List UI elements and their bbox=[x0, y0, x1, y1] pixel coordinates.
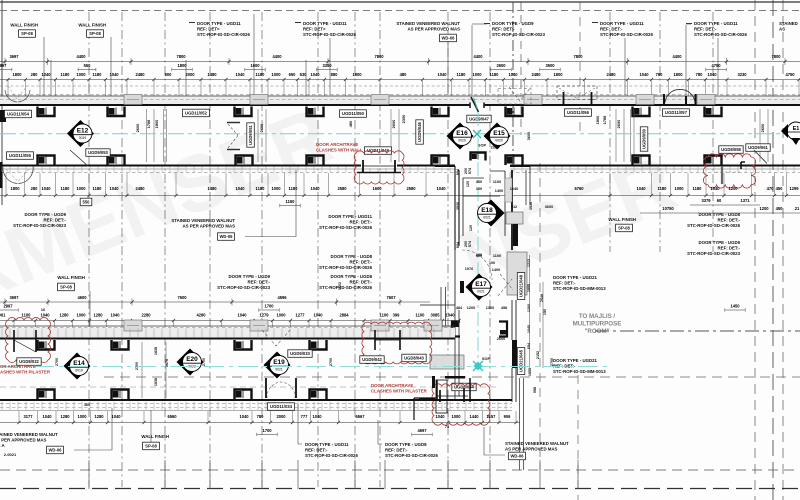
svg-text:650: 650 bbox=[289, 72, 297, 77]
door jamb above wall B x46 bbox=[38, 156, 55, 166]
svg-text:1100: 1100 bbox=[22, 313, 32, 318]
wall pair lower right bbox=[520, 378, 524, 470]
svg-text:1800: 1800 bbox=[12, 72, 22, 77]
corridor lower walls bbox=[436, 300, 516, 413]
wire dim vert 3676 bbox=[165, 342, 167, 398]
svg-text:AS PER APPROVED MAS: AS PER APPROVED MAS bbox=[408, 27, 461, 32]
svg-text:E20: E20 bbox=[186, 356, 198, 363]
svg-text:1180: 1180 bbox=[693, 186, 703, 191]
door jamb below wall C x120 bbox=[112, 340, 129, 350]
marker E18 bbox=[478, 200, 505, 227]
label WD-06 bottom left bbox=[47, 446, 64, 454]
svg-text:780: 780 bbox=[696, 72, 704, 77]
svg-text:1040: 1040 bbox=[508, 72, 518, 77]
wall B door gap bbox=[361, 164, 397, 168]
svg-text:3177: 3177 bbox=[23, 414, 33, 419]
label WD-06 box mid bbox=[218, 233, 235, 241]
label stained right clip bbox=[779, 21, 798, 32]
label UGD11/052 bbox=[183, 109, 210, 117]
door panel wall C x124 bbox=[124, 320, 142, 331]
svg-text:DOOR TYPE - UGD11: DOOR TYPE - UGD11 bbox=[305, 442, 349, 447]
svg-text:1000: 1000 bbox=[472, 72, 482, 77]
svg-text:2600: 2600 bbox=[135, 124, 140, 133]
wire left edge bbox=[1, 0, 3, 205]
svg-text:DOOR TYPE - UGD9: DOOR TYPE - UGD9 bbox=[698, 240, 740, 245]
door jamb below wall A x46 bbox=[38, 107, 55, 117]
label door type UGD9 mid-left bbox=[13, 212, 66, 228]
svg-text:3600: 3600 bbox=[545, 205, 553, 209]
label wall finish right bbox=[608, 217, 636, 222]
svg-text:3697: 3697 bbox=[9, 54, 19, 59]
svg-text:1000: 1000 bbox=[674, 186, 684, 191]
door panel wall C x371 bbox=[371, 320, 389, 331]
svg-text:1800: 1800 bbox=[595, 116, 600, 125]
svg-text:STC-ROP-ID-SD-CIR-0026: STC-ROP-ID-SD-CIR-0026 bbox=[303, 32, 356, 37]
svg-text:1040: 1040 bbox=[41, 72, 51, 77]
svg-text:4400: 4400 bbox=[76, 54, 86, 59]
corner post left bbox=[0, 110, 6, 122]
svg-text:UGD21/045: UGD21/045 bbox=[519, 349, 524, 372]
revision cloud UGD8/032 bbox=[6, 318, 51, 363]
wire leader bbox=[253, 14, 255, 95]
door jamb below wall A x713 bbox=[705, 107, 722, 117]
svg-text:1000: 1000 bbox=[451, 414, 461, 419]
svg-text:1000: 1000 bbox=[271, 186, 281, 191]
svg-text:1040: 1040 bbox=[110, 313, 120, 318]
label UGD9/047 bbox=[467, 115, 491, 123]
door jamb above wall D x120 bbox=[112, 390, 129, 400]
svg-text:WD-06: WD-06 bbox=[219, 234, 233, 239]
svg-text:300: 300 bbox=[476, 180, 482, 184]
svg-text:E12: E12 bbox=[77, 127, 89, 134]
svg-text:2480: 2480 bbox=[135, 72, 145, 77]
wire grid line bbox=[121, 12, 123, 487]
label WD-06 bottom right bbox=[509, 452, 526, 460]
wire dim chain a bbox=[529, 255, 531, 368]
door jamb vertical left bbox=[452, 322, 460, 337]
door posts right bbox=[664, 94, 696, 106]
svg-text:7600: 7600 bbox=[177, 295, 187, 300]
svg-text:0021: 0021 bbox=[483, 216, 491, 220]
wire wall D dashed 1 bbox=[0, 403, 512, 405]
door dashed V below wall B left bbox=[6, 169, 29, 181]
svg-text:STC-ROP-ID-SD-CIR-0026: STC-ROP-ID-SD-CIR-0026 bbox=[305, 453, 358, 458]
label door UGD21 a bbox=[553, 275, 606, 291]
svg-text:4280: 4280 bbox=[196, 313, 206, 318]
svg-text:1280: 1280 bbox=[93, 313, 103, 318]
label wall finish mid bbox=[57, 275, 85, 280]
wall B band ticks bbox=[2, 167, 794, 173]
svg-text:1371: 1371 bbox=[740, 198, 750, 203]
svg-text:STAINED VENEERED WALNUT: STAINED VENEERED WALNUT bbox=[0, 432, 58, 437]
svg-text:1040: 1040 bbox=[510, 187, 518, 191]
wire grid line bbox=[354, 12, 356, 487]
svg-text:UGD9/046: UGD9/046 bbox=[417, 121, 422, 141]
svg-text:470: 470 bbox=[767, 186, 775, 191]
revision cloud UGD11/049 bbox=[354, 151, 404, 184]
wire dim vert 2700 bbox=[141, 342, 143, 398]
svg-text:STC-ROP-ID-SD-CIR-0026: STC-ROP-ID-SD-CIR-0026 bbox=[687, 223, 740, 228]
svg-text:912: 912 bbox=[511, 205, 517, 209]
svg-text:ASHES WITH PILASTER: ASHES WITH PILASTER bbox=[0, 370, 51, 375]
wire wall A dashed 2 bbox=[0, 99, 800, 101]
svg-text:STC-ROP-ID-SD-CIR-0026: STC-ROP-ID-SD-CIR-0026 bbox=[319, 285, 372, 290]
label UGD9/059 rotated bbox=[640, 127, 648, 151]
svg-text:REF: DET:-: REF: DET:- bbox=[350, 260, 373, 265]
svg-text:E17: E17 bbox=[475, 281, 487, 288]
svg-text:1180: 1180 bbox=[490, 72, 500, 77]
svg-text:1040: 1040 bbox=[40, 313, 50, 318]
corridor left wall pair bbox=[441, 287, 446, 326]
label stained walnut mid bbox=[171, 218, 235, 229]
svg-text:1040: 1040 bbox=[436, 186, 446, 191]
door swing arcs mid bbox=[509, 87, 531, 101]
svg-text:1180: 1180 bbox=[289, 186, 299, 191]
svg-text:1040: 1040 bbox=[639, 72, 649, 77]
svg-text:6560: 6560 bbox=[167, 414, 177, 419]
svg-text:1040: 1040 bbox=[235, 72, 245, 77]
watermark bbox=[0, 90, 687, 321]
wire dashed right b bbox=[104, 376, 800, 378]
svg-text:1976: 1976 bbox=[465, 267, 473, 271]
wire leader bbox=[185, 60, 187, 96]
wire wall D face thick bbox=[0, 399, 512, 401]
svg-text:REF: DET:-: REF: DET:- bbox=[305, 448, 328, 453]
svg-text:1040: 1040 bbox=[41, 186, 51, 191]
wire bottom stub bbox=[577, 460, 579, 489]
wire grid line short bbox=[609, 12, 611, 252]
svg-text:906: 906 bbox=[504, 414, 512, 419]
corridor vertical walls bbox=[420, 166, 530, 305]
door panel x636 bbox=[636, 95, 654, 105]
corridor grey wall right bbox=[505, 178, 512, 202]
svg-text:REF: DET:-: REF: DET:- bbox=[44, 218, 67, 223]
svg-text:STC-ROP-ID-SD-CIR-0023: STC-ROP-ID-SD-CIR-0023 bbox=[687, 251, 740, 256]
marker E14 bbox=[64, 353, 91, 380]
svg-text:DOOR ARCHITRAVE: DOOR ARCHITRAVE bbox=[316, 142, 358, 147]
svg-text:REF: DET:-: REF: DET:- bbox=[553, 281, 576, 286]
marker E20 bbox=[177, 349, 204, 376]
door diagonal E12 bbox=[70, 150, 88, 166]
svg-text:SP-08: SP-08 bbox=[89, 31, 101, 36]
svg-text:"ROOM": "ROOM" bbox=[584, 328, 609, 335]
svg-text:E14: E14 bbox=[73, 360, 85, 367]
wall C grey band fill bbox=[0, 328, 455, 338]
svg-text:UGD9/053: UGD9/053 bbox=[88, 150, 108, 155]
wire grid line bbox=[164, 12, 166, 487]
svg-text:4750: 4750 bbox=[711, 63, 721, 68]
svg-text:2580: 2580 bbox=[337, 186, 347, 191]
svg-text:SOP: SOP bbox=[482, 357, 490, 361]
svg-text:777: 777 bbox=[301, 414, 309, 419]
svg-text:2600: 2600 bbox=[259, 124, 264, 133]
svg-text:DOOR TYPE - UGD21: DOOR TYPE - UGD21 bbox=[553, 275, 598, 280]
svg-text:DOOR TYPE - UGD8: DOOR TYPE - UGD8 bbox=[330, 254, 372, 259]
svg-text:UGD8/043: UGD8/043 bbox=[404, 356, 424, 361]
svg-text:4750: 4750 bbox=[785, 72, 795, 77]
wire wall B thin bbox=[0, 168, 455, 170]
label door type UGD9 right bbox=[687, 240, 740, 256]
corridor inner outline bbox=[463, 171, 505, 236]
svg-text:1200: 1200 bbox=[467, 306, 475, 310]
wire wall A face thick bbox=[0, 104, 800, 106]
label door UGD21 b bbox=[553, 358, 606, 374]
svg-text:1040: 1040 bbox=[313, 313, 323, 318]
door posts bottom bbox=[266, 378, 296, 398]
svg-text:REF: DET:-: REF: DET:- bbox=[385, 448, 408, 453]
svg-text:498: 498 bbox=[501, 306, 507, 310]
svg-text:484: 484 bbox=[456, 306, 463, 310]
svg-text:DOOR TYPE - UGD9: DOOR TYPE - UGD9 bbox=[228, 274, 270, 279]
label UGD11/054 bbox=[5, 110, 32, 118]
wire leader wd06 bottom right bbox=[484, 427, 505, 455]
label door UGD11 bottom bbox=[305, 442, 358, 458]
svg-text:AS PER APPROVED MAS: AS PER APPROVED MAS bbox=[0, 438, 47, 443]
svg-text:0020: 0020 bbox=[495, 139, 503, 143]
svg-text:550: 550 bbox=[83, 200, 91, 205]
label to majlis bbox=[573, 313, 622, 335]
svg-text:2350: 2350 bbox=[401, 115, 406, 124]
svg-text:280: 280 bbox=[31, 186, 39, 191]
door jamb above wall D x46 bbox=[38, 390, 55, 400]
svg-text:1040: 1040 bbox=[312, 414, 322, 419]
door jamb below wall A x514 bbox=[506, 107, 523, 117]
wire leader bbox=[50, 60, 52, 96]
door swing arcs left bbox=[5, 90, 30, 102]
label UGD11/034 bbox=[268, 403, 295, 411]
svg-text:1000: 1000 bbox=[76, 72, 86, 77]
door frame in cloud right bbox=[716, 162, 745, 184]
svg-text:21: 21 bbox=[795, 206, 800, 211]
svg-text:STC-ROP-ID-SD-CIR-0026: STC-ROP-ID-SD-CIR-0026 bbox=[694, 32, 747, 37]
svg-text:480: 480 bbox=[400, 72, 408, 77]
wire bottom dashed 2 bbox=[0, 488, 800, 490]
door jamb above wall D x318 bbox=[310, 390, 327, 400]
svg-text:1100: 1100 bbox=[380, 313, 390, 318]
svg-text:REF: DET:-: REF: DET:- bbox=[718, 218, 741, 223]
svg-text:STC-ROP-ID-SD-CIR-0026: STC-ROP-ID-SD-CIR-0026 bbox=[197, 32, 250, 37]
door diagonal right bbox=[754, 150, 767, 164]
label UGD8/044 bbox=[452, 383, 476, 391]
door jamb below wall C x46 bbox=[38, 340, 55, 350]
svg-text:2480: 2480 bbox=[135, 186, 145, 191]
svg-text:4600: 4600 bbox=[77, 295, 87, 300]
svg-text:7800: 7800 bbox=[176, 54, 186, 59]
svg-text:7800: 7800 bbox=[374, 54, 384, 59]
wire grid line bbox=[317, 12, 319, 487]
label UGD11/057 bbox=[663, 109, 690, 117]
wire bottom stub bbox=[447, 460, 449, 489]
dim row top level B bbox=[0, 63, 726, 71]
wire wall B thick left bbox=[0, 165, 455, 167]
door dashed UGD11/056 bbox=[557, 86, 597, 106]
svg-text:UGD11/050: UGD11/050 bbox=[342, 111, 365, 116]
svg-text:1440: 1440 bbox=[469, 414, 479, 419]
svg-text:STC-ROP-ID-SD-CIR-0026: STC-ROP-ID-SD-CIR-0026 bbox=[600, 32, 653, 37]
svg-text:1100: 1100 bbox=[416, 313, 426, 318]
dim mid level B bbox=[0, 304, 745, 312]
wire wall D bottom thin bbox=[0, 410, 512, 412]
svg-text:MULTIPURPOSE: MULTIPURPOSE bbox=[573, 321, 622, 328]
door double arcs below wall B left bbox=[3, 166, 33, 184]
wire leader wd06 mid bbox=[245, 170, 296, 237]
label SP-08 bottom bbox=[143, 442, 160, 450]
wire grid axis bbox=[512, 2, 514, 165]
svg-text:100: 100 bbox=[476, 187, 482, 191]
svg-text:1040: 1040 bbox=[235, 186, 245, 191]
svg-text:1600: 1600 bbox=[250, 63, 260, 68]
svg-text:2000: 2000 bbox=[276, 414, 286, 419]
svg-text:REF: DET:-: REF: DET:- bbox=[248, 280, 271, 285]
svg-text:0019: 0019 bbox=[79, 136, 87, 140]
svg-text:1855: 1855 bbox=[527, 284, 531, 292]
svg-text:CLASHES WITH WALL: CLASHES WITH WALL bbox=[316, 148, 363, 153]
svg-text:DOOR TYPE - UGD8: DOOR TYPE - UGD8 bbox=[330, 274, 372, 279]
svg-text:DOOR TYPE - UGD9: DOOR TYPE - UGD9 bbox=[24, 212, 66, 217]
black corridor bars bbox=[460, 224, 518, 368]
wire cyan vertical bbox=[477, 112, 479, 366]
door swing corridor bbox=[462, 250, 492, 280]
svg-text:UGD21/048: UGD21/048 bbox=[519, 274, 524, 297]
wire grid line short bbox=[712, 12, 714, 252]
svg-text:WALL FINISH: WALL FINISH bbox=[141, 434, 169, 439]
svg-text:WD-06: WD-06 bbox=[510, 454, 524, 459]
door panel x124 bbox=[124, 95, 142, 105]
svg-text:DOOR TYPE - UGD11: DOOR TYPE - UGD11 bbox=[600, 21, 644, 26]
svg-text:1100: 1100 bbox=[493, 254, 501, 258]
svg-text:1040: 1040 bbox=[237, 313, 247, 318]
svg-text:DOOR ARCHITRAVE: DOOR ARCHITRAVE bbox=[371, 383, 413, 388]
svg-text:60: 60 bbox=[717, 198, 722, 203]
svg-text:1000: 1000 bbox=[271, 72, 281, 77]
svg-text:1600: 1600 bbox=[372, 186, 382, 191]
svg-text:1800: 1800 bbox=[352, 72, 362, 77]
svg-text:1480: 1480 bbox=[207, 72, 217, 77]
svg-text:STAINED VENEERED WALNUT: STAINED VENEERED WALNUT bbox=[505, 441, 569, 446]
svg-text:1855: 1855 bbox=[528, 368, 532, 376]
door leaf top center bbox=[470, 97, 484, 112]
label UGD9/051 rotated bbox=[247, 123, 255, 147]
wire wall B dashed bbox=[0, 172, 455, 174]
cyan X junction bbox=[473, 361, 483, 371]
door frame cloud c bbox=[375, 330, 400, 350]
svg-text:4596: 4596 bbox=[277, 295, 287, 300]
svg-text:0019: 0019 bbox=[75, 369, 83, 373]
door jamb above wall B x514 bbox=[506, 156, 523, 166]
door jamb below wall C x243 bbox=[235, 340, 252, 350]
svg-text:STC-ROP-ID-SD-CIR-0023: STC-ROP-ID-SD-CIR-0023 bbox=[13, 223, 66, 228]
svg-text:STAINED VENEERED WALNUT: STAINED VENEERED WALNUT bbox=[171, 218, 235, 223]
label red clash pilaster b bbox=[371, 383, 428, 394]
label 550 box bbox=[80, 198, 92, 206]
svg-text:3536: 3536 bbox=[529, 202, 533, 210]
wire wall B thick right bbox=[510, 165, 800, 167]
svg-text:OR ARCHITRAVE: OR ARCHITRAVE bbox=[0, 364, 36, 369]
door jamb below wall A x116 bbox=[108, 107, 125, 117]
cyan X junction upper bbox=[473, 130, 481, 138]
svg-text:1480: 1480 bbox=[207, 186, 217, 191]
wire bottom stub bbox=[164, 460, 166, 489]
door jamb below wall A x641 bbox=[633, 107, 650, 117]
svg-text:6760: 6760 bbox=[574, 186, 584, 191]
marker E right edge bbox=[781, 122, 800, 145]
label UGD9/053 bbox=[86, 149, 110, 157]
svg-text:SOP: SOP bbox=[478, 143, 487, 148]
wire grid line bbox=[261, 12, 263, 487]
svg-text:1040: 1040 bbox=[111, 414, 121, 419]
label UGD8/032 bbox=[17, 358, 41, 366]
door jamb below wall A x243 bbox=[235, 107, 252, 117]
door jamb vertical right bbox=[499, 322, 507, 337]
svg-text:2700: 2700 bbox=[55, 358, 59, 366]
svg-text:1040: 1040 bbox=[636, 186, 646, 191]
wire dim chains between walls bbox=[146, 109, 148, 162]
door double arc bottom bbox=[267, 382, 295, 398]
label stained walnut bottom left bbox=[0, 432, 58, 443]
svg-text:2700: 2700 bbox=[329, 358, 333, 366]
svg-text:1040: 1040 bbox=[310, 72, 320, 77]
svg-text:1838: 1838 bbox=[154, 347, 158, 355]
door bars bottom bbox=[419, 376, 465, 401]
svg-text:0020: 0020 bbox=[458, 139, 466, 143]
wire leader door bottom bbox=[298, 404, 302, 444]
door panel x250 bbox=[250, 95, 268, 105]
svg-text:10750: 10750 bbox=[662, 206, 674, 211]
svg-text:780: 780 bbox=[656, 72, 664, 77]
wire bottom stub bbox=[384, 460, 386, 489]
door frame cloud b bbox=[14, 330, 36, 352]
svg-text:120: 120 bbox=[469, 225, 473, 231]
wire bottom stub bbox=[88, 460, 90, 489]
svg-text:574: 574 bbox=[468, 167, 472, 174]
svg-text:3602: 3602 bbox=[338, 282, 342, 290]
svg-text:1040: 1040 bbox=[707, 72, 717, 77]
wire right line bbox=[754, 0, 756, 500]
revision cloud UGD8/042 bbox=[362, 322, 432, 364]
svg-text:STC-ROP-ID-SD-CIR-0023: STC-ROP-ID-SD-CIR-0023 bbox=[217, 285, 270, 290]
corridor grey boxes bbox=[424, 212, 527, 369]
svg-text:16: 16 bbox=[41, 308, 45, 312]
svg-text:SP-08: SP-08 bbox=[618, 226, 630, 231]
svg-text:1788: 1788 bbox=[602, 115, 607, 124]
door jamb above wall D x243 bbox=[235, 390, 252, 400]
dim row bottom bbox=[0, 411, 520, 424]
wire top line bbox=[0, 1, 800, 3]
svg-text:REF: DET>: REF: DET> bbox=[303, 27, 326, 32]
wire leader sp08 mid bbox=[89, 291, 91, 325]
corner post wall B left bbox=[0, 162, 3, 188]
svg-text:2997: 2997 bbox=[3, 304, 13, 309]
label UGD11/056 bbox=[565, 109, 592, 117]
svg-text:460: 460 bbox=[84, 403, 90, 407]
svg-text:2648: 2648 bbox=[540, 294, 544, 302]
svg-text:3600: 3600 bbox=[526, 132, 531, 141]
svg-text:AS PER APPROVED MAS: AS PER APPROVED MAS bbox=[505, 447, 558, 452]
svg-text:894: 894 bbox=[456, 241, 460, 248]
svg-text:STAINED: STAINED bbox=[779, 21, 798, 26]
svg-text:DOOR TYPE - UGD11: DOOR TYPE - UGD11 bbox=[694, 21, 738, 26]
door dashed rect top right of mouth bbox=[498, 89, 531, 105]
wire right line bbox=[782, 0, 784, 500]
door jamb below wall A x315 bbox=[307, 107, 324, 117]
svg-text:1157: 1157 bbox=[487, 414, 497, 419]
wire leader sp08 bottom bbox=[150, 410, 152, 442]
wire wall B dashed right bbox=[510, 172, 800, 174]
door jamb below wall A x440 bbox=[432, 107, 449, 117]
svg-text:574: 574 bbox=[468, 240, 472, 247]
svg-text:DOOR TYPE - UGD9: DOOR TYPE - UGD9 bbox=[492, 21, 534, 26]
svg-text:1279: 1279 bbox=[259, 313, 269, 318]
